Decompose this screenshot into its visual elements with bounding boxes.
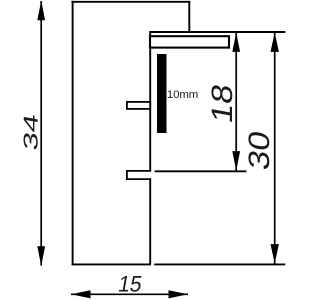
- open slot lower left line: [126, 170, 128, 180]
- reference line at slot (18 bottom): [155, 170, 247, 172]
- dimension 34 top arrow: [37, 1, 45, 21]
- open slot lower white gap in right edge: [149, 172, 152, 178]
- black insulation bar: [157, 54, 167, 133]
- dimension 30 bottom arrow: [271, 244, 279, 264]
- long horizontal line at panel underside (30/18 reference): [149, 31, 285, 33]
- reference line at bottom (30 bottom): [154, 263, 285, 265]
- open slot lower top line: [126, 170, 151, 172]
- profile right edge lower segment: [149, 178, 151, 264]
- dimension 34 bottom arrow: [37, 246, 45, 265]
- dimension 15 left arrow: [71, 290, 91, 298]
- profile right edge upper segment: [149, 31, 151, 172]
- dimension 30 top arrow: [271, 32, 279, 52]
- profile bottom edge: [72, 263, 151, 265]
- dimension 30 line: [274, 32, 276, 263]
- dimension 15 right arrow: [169, 290, 189, 298]
- svg-text:18: 18: [206, 81, 239, 125]
- mounting strip rectangle: [150, 36, 229, 47]
- dimension 15 line: [71, 293, 188, 295]
- dimension 34 line: [40, 1, 42, 266]
- open slot lower bottom line: [126, 178, 151, 180]
- svg-text:15: 15: [116, 270, 144, 296]
- dimension 18 top arrow: [232, 32, 240, 52]
- svg-text:10mm: 10mm: [167, 89, 198, 101]
- profile top-box right edge: [188, 1, 190, 33]
- profile left edge: [72, 1, 74, 265]
- svg-text:34: 34: [21, 112, 43, 152]
- dimension 18 bottom arrow: [232, 151, 240, 171]
- svg-text:30: 30: [243, 128, 276, 172]
- dimension 18 line: [235, 32, 237, 170]
- closed slot upper: [127, 102, 150, 109]
- profile top edge: [71, 1, 190, 3]
